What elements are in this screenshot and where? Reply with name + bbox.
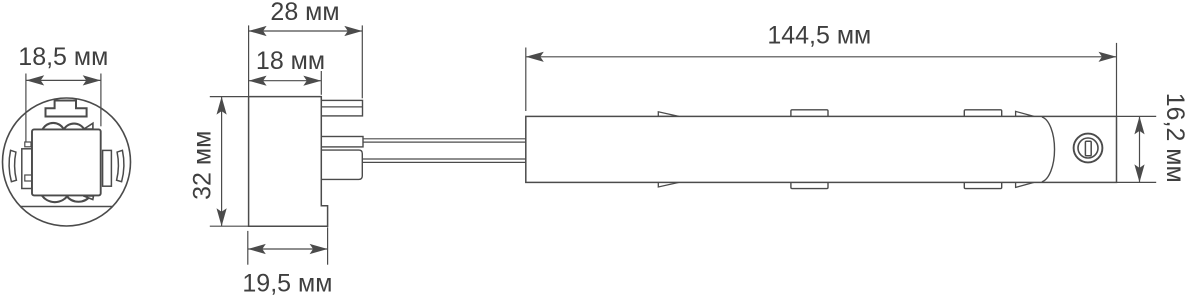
lower right wedge [83,196,93,200]
bottom latch wedge 2 [1016,182,1034,187]
arrowhead bottom 32 [217,208,227,226]
right crescent spring [117,150,124,181]
bottom latch wedge 1 [658,182,679,187]
arrowhead right 28 [344,26,362,36]
left clip tab [22,149,32,189]
arrowhead top 16,2 [1134,116,1144,134]
arrowhead right 18 [303,76,321,86]
top bump 1 [791,110,828,117]
extension line right 28 [361,25,363,98]
top prong midline [321,106,362,108]
left tab notch [25,175,32,181]
left crescent spring [9,150,16,181]
wire 2 [362,158,526,160]
screw inner circle [1078,138,1098,158]
extension line left 18,5 [25,74,27,143]
extension line right 18,5 [100,74,102,127]
arrowhead right 144,5 [1099,52,1117,62]
bar body [526,116,1117,182]
bottom bump 2 [964,182,1001,188]
lower block [321,150,362,179]
left small bump [25,142,31,147]
extension line left 28/18 [248,25,250,96]
top latch wedge 1 [658,112,679,117]
upper right wedge [84,123,93,129]
screw outer circle [1074,134,1103,163]
top latch wedge 2 [1016,111,1034,116]
main square body [32,129,101,195]
middle prong [321,137,363,147]
extension line top 32 [210,96,249,98]
svg-text:28 мм: 28 мм [270,0,339,26]
circle outline [3,98,131,226]
extension line right 19,5 [327,227,329,264]
extension line right 18 [320,71,322,95]
arrowhead bottom 16,2 [1134,164,1144,182]
dimension 16,2 mm line [1139,116,1141,182]
arrowhead left 144,5 [526,52,544,62]
arrowhead right 18,5 [83,75,101,85]
extension line left 144,5 [525,48,527,112]
dimension 18,5 mm line [26,79,101,81]
extension line top 16,2 [1117,115,1157,117]
screw slot [1085,141,1091,156]
svg-text:144,5 мм: 144,5 мм [767,22,871,50]
arrowhead top 32 [217,97,227,115]
extension line bottom 32 [210,225,249,227]
lower roller arcs [42,195,91,202]
extension line bottom 16,2 [1117,181,1157,183]
dimension 144,5 mm line [526,56,1117,58]
dimension 32 mm line [221,97,223,227]
arrowhead right 19,5 [310,244,328,254]
svg-text:18 мм: 18 мм [256,47,325,75]
stepped tab (top contact) [46,101,87,117]
dimension 19,5 mm line [248,248,328,250]
upper roller arcs [43,123,85,130]
top prong [321,100,362,116]
svg-text:19,5 мм: 19,5 мм [242,269,332,297]
svg-text:16,2 мм: 16,2 мм [1161,93,1187,183]
extension line left 19,5 [247,231,249,265]
end cap arc [1042,117,1055,182]
arrowhead left 19,5 [248,244,266,254]
arrowhead left 18,5 [26,75,44,85]
wire 1 [363,138,526,140]
arrowhead left 18 [249,76,267,86]
svg-text:18,5 мм: 18,5 мм [18,43,108,71]
top bump 2 [964,110,1001,117]
adapter body outline [249,97,328,227]
bottom bump 1 [791,182,828,188]
dimension 18 mm line [249,80,322,82]
extension line right 144,5 [1116,43,1118,117]
dimension 28 mm line [249,30,363,32]
arrowhead left 28 [249,26,267,36]
right clip tab [103,150,112,186]
chord line [21,206,113,208]
svg-text:32 мм: 32 мм [189,131,217,200]
